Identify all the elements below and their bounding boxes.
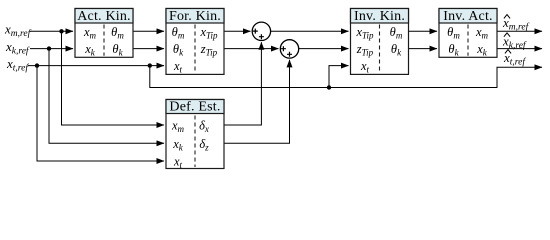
wire S1 output to Inv. Kin. x_Tip: [271, 30, 349, 32]
wire x_Tip from For. Kin. to summing junction S1: [224, 30, 251, 32]
junction dot x_t branch to Def. Est.: [35, 63, 39, 67]
junction dot x_t branch to bypass wire: [148, 63, 152, 67]
label x_m,ref hat (output): [502, 15, 530, 33]
junction dot on bypass wire for Inv. Kin. x_t: [327, 85, 331, 89]
junction dot on x_k,ref wire: [47, 46, 51, 50]
block Inv. Kin.: [351, 9, 409, 75]
svg-text:xt,ref: xt,ref: [503, 50, 526, 68]
label x_k,ref hat (output): [502, 33, 527, 51]
wire x_k,ref into Act. Kin.: [30, 48, 73, 50]
svg-text:Inv. Kin.: Inv. Kin.: [354, 9, 405, 24]
block For. Kin.: [166, 9, 224, 75]
wire output x_m,ref hat: [497, 30, 542, 32]
svg-text:xm,ref: xm,ref: [4, 22, 32, 40]
junction dot on x_m,ref wire: [59, 29, 63, 33]
svg-text:Def. Est.: Def. Est.: [169, 100, 220, 115]
wire delta_x from Def. Est. to S1: [224, 42, 261, 125]
wire theta_k from Act. Kin. to For. Kin.: [133, 48, 164, 50]
block Act. Kin.: [75, 9, 133, 58]
summing junction S2: [280, 40, 298, 58]
summing junction S1: [252, 22, 270, 40]
wire output x_k,ref hat: [497, 48, 542, 50]
wire x_m,ref drop to Def. Est. x_m: [62, 31, 165, 125]
svg-text:xm,ref: xm,ref: [502, 15, 530, 33]
block Inv. Act.: [439, 9, 497, 58]
wire S2 output to Inv. Kin. z_Tip: [299, 48, 349, 50]
wire theta_k from Inv. Kin. to Inv. Act.: [409, 48, 438, 50]
wire bypass riser into Inv. Kin. x_t: [329, 66, 349, 88]
wire x_t,ref into For. Kin.: [28, 65, 164, 67]
svg-text:For. Kin.: For. Kin.: [169, 9, 221, 24]
wire z_Tip from For. Kin. to summing junction S2: [224, 48, 279, 50]
block Def. Est.: [166, 100, 224, 171]
wire theta_m from Inv. Kin. to Inv. Act.: [409, 30, 438, 32]
wire x_k,ref drop to Def. Est. x_k: [49, 49, 164, 144]
wire x_t,ref drop to Def. Est. x_t: [37, 66, 164, 161]
label x_t,ref hat (output): [503, 50, 526, 68]
wire delta_z from Def. Est. to S2: [224, 60, 290, 144]
wire theta_m from Act. Kin. to For. Kin.: [133, 30, 164, 32]
wire x_t bypass: down, across, up to output x_t,ref: [150, 66, 542, 88]
svg-text:Act. Kin.: Act. Kin.: [77, 9, 131, 24]
svg-text:xk,ref: xk,ref: [5, 39, 30, 57]
svg-text:xk,ref: xk,ref: [502, 33, 527, 51]
wire x_m,ref into Act. Kin.: [30, 30, 73, 32]
svg-text:xt,ref: xt,ref: [6, 56, 29, 74]
svg-text:Inv. Act.: Inv. Act.: [443, 9, 493, 24]
